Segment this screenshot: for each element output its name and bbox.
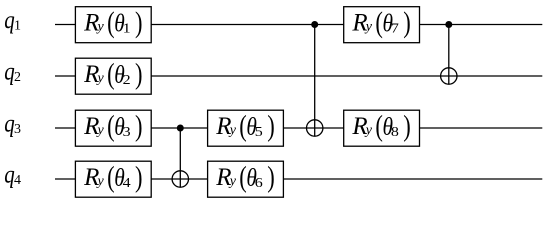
target CNOT3 (XOR) (441, 68, 457, 84)
control dot CNOT3 (445, 21, 452, 28)
gate Ry(θ4) U4 (75, 161, 151, 198)
wire q3 (55, 127, 542, 129)
gate Ry(θ3) U3 (75, 110, 151, 147)
control dot CNOT1 (177, 125, 184, 132)
wire CNOT3 vertical q1-q2 (448, 25, 450, 85)
target CNOT1 (XOR) (172, 171, 188, 187)
wire q2 (55, 75, 542, 77)
gate Ry(θ8) U8 (344, 110, 420, 147)
gate Ry(θ7) U7 (344, 6, 420, 43)
wire CNOT2 vertical q1-q3 (314, 25, 316, 137)
gate Ry(θ2) U2 (75, 58, 151, 95)
gate Ry(θ6) U6 (208, 161, 284, 198)
wire CNOT1 vertical q3-q4 (179, 128, 181, 187)
control dot CNOT2 (311, 21, 318, 28)
target CNOT2 (XOR) (307, 120, 323, 136)
gate Ry(θ5) U5 (208, 110, 284, 147)
wire q4 (55, 178, 542, 180)
wire q1 (55, 24, 542, 26)
gate Ry(θ1) U1 (75, 6, 151, 43)
